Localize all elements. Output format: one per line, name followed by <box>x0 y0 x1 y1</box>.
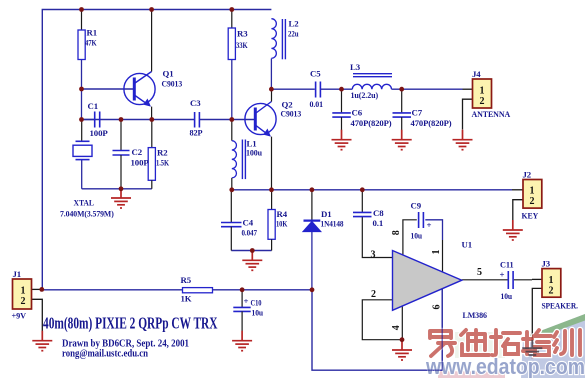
svg-text:XTAL: XTAL <box>74 198 95 208</box>
connector J2 KEY <box>512 170 542 221</box>
node D1 cathode <box>310 187 315 192</box>
svg-text:1u(2.2u): 1u(2.2u) <box>351 90 379 100</box>
inductor L1 <box>232 120 262 190</box>
wire C5 to L3 <box>320 88 352 90</box>
connector J4 ANTENNA <box>463 69 511 130</box>
svg-text:Q1: Q1 <box>163 69 174 79</box>
svg-text:2: 2 <box>21 296 26 307</box>
capacitor C5 <box>310 69 324 110</box>
svg-text:L2: L2 <box>289 19 300 29</box>
ground under C10 <box>232 331 252 351</box>
wire C9 gain loop pin1 <box>425 220 442 240</box>
svg-text:0.047: 0.047 <box>242 228 258 238</box>
node C4 R4 gnd <box>250 248 255 253</box>
svg-text:2: 2 <box>371 289 376 300</box>
capacitor C2 <box>113 120 150 189</box>
svg-text:0.1: 0.1 <box>373 218 384 228</box>
svg-text:2: 2 <box>480 96 485 107</box>
watermark <box>425 314 585 378</box>
svg-text:5: 5 <box>477 267 482 278</box>
wire pin6 repaint <box>426 288 442 370</box>
svg-text:10u: 10u <box>411 231 423 241</box>
resistor R2 <box>148 120 169 189</box>
svg-text:ANTENNA: ANTENNA <box>472 109 511 119</box>
svg-text:3: 3 <box>371 250 376 261</box>
svg-text:1: 1 <box>549 275 554 286</box>
connector J3 SPEAKER <box>532 259 578 342</box>
svg-text:1N4148: 1N4148 <box>321 219 345 229</box>
capacitor C10 polarized <box>233 290 263 331</box>
wire pin4 drop <box>401 306 403 340</box>
capacitor C4 <box>221 190 257 251</box>
svg-text:J2: J2 <box>523 170 532 180</box>
svg-text:40m(80m) PIXIE 2 QRPp CW TRX: 40m(80m) PIXIE 2 QRPp CW TRX <box>43 314 218 333</box>
node Q2 emitter R4 <box>269 187 274 192</box>
capacitor C9 polarized <box>411 201 432 241</box>
svg-text:22u: 22u <box>288 29 299 39</box>
svg-text:470P(820P): 470P(820P) <box>351 118 392 128</box>
svg-text:2: 2 <box>530 196 535 207</box>
svg-text:C5: C5 <box>310 69 321 79</box>
node C2 tap <box>119 117 124 122</box>
svg-text:C9013: C9013 <box>281 109 302 119</box>
svg-text:www.edatop.com: www.edatop.com <box>425 354 585 378</box>
node D1 R5 <box>310 287 315 292</box>
svg-text:10u: 10u <box>252 308 264 318</box>
wire top bus <box>42 10 271 291</box>
svg-text:R3: R3 <box>237 29 248 39</box>
capacitor C3 <box>190 98 204 138</box>
node Q1 base tap <box>79 87 84 92</box>
wire D1 cathode up <box>311 190 313 220</box>
svg-text:C2: C2 <box>132 147 143 157</box>
svg-text:33K: 33K <box>236 40 248 50</box>
wire xtal ground run <box>81 160 83 189</box>
svg-text:C9: C9 <box>411 201 422 211</box>
svg-text:100u: 100u <box>246 148 262 158</box>
node Q2 collector <box>269 87 274 92</box>
svg-text:C4: C4 <box>243 218 254 228</box>
wire R5 to D1 node <box>213 289 313 291</box>
diode D1 1N4148 <box>303 209 344 232</box>
svg-text:+: + <box>244 296 249 306</box>
capacitor C8 <box>353 190 384 228</box>
svg-text:U1: U1 <box>462 240 473 250</box>
svg-text:R4: R4 <box>277 209 288 219</box>
svg-text:J3: J3 <box>542 259 551 269</box>
svg-text:C9013: C9013 <box>162 79 183 89</box>
op-amp U1 LM386 <box>371 230 488 330</box>
svg-text:KEY: KEY <box>522 211 539 221</box>
svg-text:10K: 10K <box>276 219 287 229</box>
svg-text:2: 2 <box>549 286 554 297</box>
wire C11 to J3 <box>514 279 532 281</box>
svg-text:8: 8 <box>391 230 402 235</box>
ground under C7 <box>392 130 412 150</box>
svg-text:C7: C7 <box>412 108 423 118</box>
wire emitter bus y=190 <box>232 189 512 191</box>
wire mid signal bus y=119.5 <box>82 119 195 121</box>
ground under J4 <box>453 130 473 150</box>
wire L3 to J4 <box>392 88 463 90</box>
svg-text:4: 4 <box>391 325 402 330</box>
wire 9V bus y=290 <box>42 289 183 291</box>
crystal XTAL <box>60 120 114 219</box>
capacitor C7 <box>393 89 452 130</box>
capacitor C1 <box>82 101 109 138</box>
svg-text:R5: R5 <box>181 275 192 285</box>
wire R3 bottom <box>231 60 233 120</box>
wire pin2 loop <box>362 300 402 340</box>
svg-text:82P: 82P <box>190 128 204 138</box>
node L1 bottom <box>229 187 234 192</box>
wire C4 R4 ground bar <box>231 250 271 252</box>
svg-text:6: 6 <box>432 305 443 310</box>
wire Q1 base <box>82 88 134 90</box>
wire V+ run to pin6 <box>312 288 442 370</box>
wire collector node to C5 <box>271 88 314 90</box>
wire C3 to Q2 base <box>200 119 255 121</box>
node xtal gnd <box>119 186 124 191</box>
svg-text:1: 1 <box>530 186 535 197</box>
ground under C2 <box>111 188 131 208</box>
svg-text:C8: C8 <box>373 208 384 218</box>
node C7 tap <box>399 87 404 92</box>
svg-text:J4: J4 <box>472 69 481 79</box>
connector J1 +9V <box>12 269 43 332</box>
inductor L3 <box>350 62 392 100</box>
svg-text:1: 1 <box>431 250 442 255</box>
svg-text:LM386: LM386 <box>463 310 488 320</box>
inductor L2 <box>271 19 299 60</box>
resistor R5 <box>181 275 213 304</box>
ground under op-amp pin4 <box>392 340 412 360</box>
resistor R4 <box>268 190 288 251</box>
node C6 tap <box>339 87 344 92</box>
svg-text:L3: L3 <box>350 62 361 72</box>
ground under J2 <box>503 220 523 240</box>
resistor R1 <box>78 10 97 60</box>
svg-text:+9V: +9V <box>12 311 27 321</box>
resistor R3 <box>228 10 248 60</box>
svg-text:C10: C10 <box>251 298 263 308</box>
svg-text:47K: 47K <box>85 38 97 48</box>
wire output pin5 to C11 <box>462 279 508 281</box>
node Q2 base <box>229 117 234 122</box>
ground under J3 repaint <box>522 340 542 355</box>
svg-text:R1: R1 <box>87 28 98 38</box>
svg-text:10u: 10u <box>501 291 513 301</box>
node J1 pin1 <box>39 287 44 292</box>
node Q1 emitter <box>149 117 154 122</box>
svg-text:7.040M(3.579M): 7.040M(3.579M) <box>60 209 114 219</box>
wire C9 gain loop pin8 <box>403 220 417 256</box>
svg-text:470P(820P): 470P(820P) <box>411 118 452 128</box>
svg-text:100P: 100P <box>131 158 150 168</box>
ground under C6 <box>332 130 352 150</box>
svg-text:C3: C3 <box>190 98 201 108</box>
transistor Q2 C9013 <box>245 89 302 190</box>
svg-text:+: + <box>427 220 432 230</box>
svg-text:1.5K: 1.5K <box>156 158 169 168</box>
svg-text:rong@mail.ustc.edu.cn: rong@mail.ustc.edu.cn <box>62 349 148 360</box>
svg-text:1: 1 <box>21 286 26 297</box>
ground under C4 R4 <box>242 250 262 270</box>
node C8 tap <box>360 187 365 192</box>
svg-text:SPEAKER.: SPEAKER. <box>542 301 578 311</box>
capacitor C11 polarized <box>500 260 514 302</box>
svg-text:C11: C11 <box>500 260 514 270</box>
svg-text:1: 1 <box>480 86 485 97</box>
transistor Q1 C9013 <box>124 10 183 120</box>
ground under J3 <box>522 338 542 358</box>
node C10 tap <box>240 287 245 292</box>
wire R1 bottom run <box>81 60 83 120</box>
svg-text:R2: R2 <box>157 148 168 158</box>
svg-text:+: + <box>500 270 505 280</box>
svg-text:1K: 1K <box>181 294 192 304</box>
svg-text:C6: C6 <box>352 108 363 118</box>
node top R3 <box>229 7 234 12</box>
wire D1 anode drop <box>311 232 313 290</box>
node top R1 <box>79 7 84 12</box>
capacitor C6 <box>332 89 391 130</box>
svg-text:100P: 100P <box>90 128 109 138</box>
ground under J1 <box>32 331 52 351</box>
wire C8 drop to pin3 <box>362 217 392 258</box>
node C1 xtal <box>79 117 84 122</box>
svg-text:J1: J1 <box>13 269 22 279</box>
node top Q1 collector <box>149 7 154 12</box>
svg-text:D1: D1 <box>321 209 332 219</box>
wire L2 bottom to Q2 collector node <box>270 59 272 90</box>
svg-text:C1: C1 <box>88 101 99 111</box>
wire gnd bus under C2 <box>82 188 152 190</box>
svg-text:0.01: 0.01 <box>310 99 324 109</box>
node pin2 pin4 gnd <box>400 337 405 342</box>
